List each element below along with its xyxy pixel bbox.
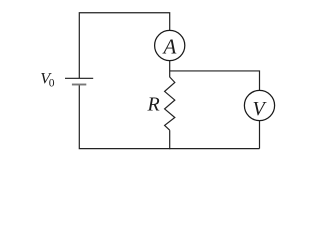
svg-text:A: A: [161, 35, 176, 59]
svg-text:R: R: [147, 94, 160, 116]
voltmeter U2: [244, 90, 274, 120]
wire bottom (return): [79, 85, 259, 149]
wire branch to voltmeter: [170, 71, 260, 91]
battery V0 plate long: [65, 77, 93, 79]
svg-text:V0: V0: [40, 69, 55, 90]
wire voltmeter to bottom: [259, 121, 261, 149]
ammeter U1: [155, 30, 185, 60]
battery V0 plate short: [72, 84, 86, 86]
resistor R: [165, 77, 175, 130]
wire resistor to bottom: [169, 130, 171, 149]
wire ammeter to resistor: [169, 61, 171, 77]
wire top (battery to ammeter branch): [79, 13, 169, 78]
